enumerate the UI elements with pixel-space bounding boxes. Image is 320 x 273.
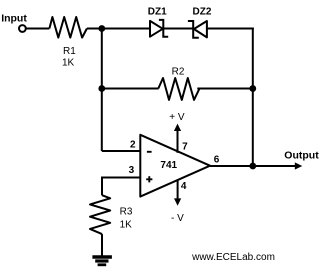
wire left bus vertical (node A to pin2) bbox=[101, 29, 103, 152]
resistor R2 bbox=[158, 78, 199, 100]
node junction dot B (R2 left) bbox=[98, 85, 105, 92]
svg-text:Input: Input bbox=[1, 13, 27, 25]
op-amp non-inverting input plus sign bbox=[146, 176, 152, 182]
svg-text:2: 2 bbox=[130, 140, 136, 151]
wire pin2 stub bbox=[102, 150, 141, 152]
svg-text:R1: R1 bbox=[63, 46, 76, 57]
ground bbox=[92, 257, 112, 265]
wire pin3 stub bbox=[102, 178, 140, 196]
node junction dot C (R2 right) bbox=[249, 85, 256, 92]
op-amp U1 741 triangle bbox=[140, 135, 210, 197]
wire R2 left bbox=[102, 88, 159, 90]
resistor R1 bbox=[49, 17, 87, 38]
zener diode DZ1 bbox=[148, 7, 168, 37]
svg-text:3: 3 bbox=[129, 165, 135, 176]
svg-text:R2: R2 bbox=[172, 66, 185, 77]
wire input to R1 bbox=[26, 28, 49, 30]
svg-text:1K: 1K bbox=[62, 58, 75, 69]
pin 4 -V supply arrow bbox=[171, 180, 187, 224]
zener diode DZ2 bbox=[188, 7, 212, 38]
node junction dot D (output / bus) bbox=[249, 163, 256, 170]
svg-text:DZ2: DZ2 bbox=[193, 7, 212, 18]
svg-text:www.ECELab.com: www.ECELab.com bbox=[191, 252, 275, 263]
wire R2 right bbox=[197, 88, 253, 90]
svg-text:+ V: + V bbox=[169, 112, 185, 123]
svg-text:7: 7 bbox=[182, 141, 188, 152]
svg-text:1K: 1K bbox=[120, 220, 133, 231]
op-amp inverting input minus sign bbox=[147, 151, 152, 153]
wire R3 to ground bbox=[101, 234, 103, 257]
wire output bbox=[210, 165, 297, 167]
svg-text:Output: Output bbox=[284, 149, 319, 161]
resistor R3 bbox=[90, 195, 110, 234]
svg-text:- V: - V bbox=[171, 213, 184, 224]
output arrowhead bbox=[295, 162, 303, 169]
svg-text:4: 4 bbox=[181, 181, 187, 192]
wire DZ2 to right bus bbox=[207, 28, 254, 30]
wire DZ1 to DZ2 bbox=[163, 28, 193, 30]
node Input terminal bbox=[19, 25, 26, 32]
svg-text:741: 741 bbox=[160, 160, 177, 171]
svg-text:R3: R3 bbox=[120, 207, 133, 218]
svg-text:DZ1: DZ1 bbox=[148, 7, 167, 18]
node junction dot A (R1 / R2 branch) bbox=[98, 25, 105, 32]
wire right bus vertical bbox=[252, 28, 254, 167]
pin 7 +V supply arrow bbox=[169, 112, 188, 153]
wire R1 to DZ1 bbox=[87, 28, 150, 30]
svg-text:6: 6 bbox=[214, 154, 220, 165]
